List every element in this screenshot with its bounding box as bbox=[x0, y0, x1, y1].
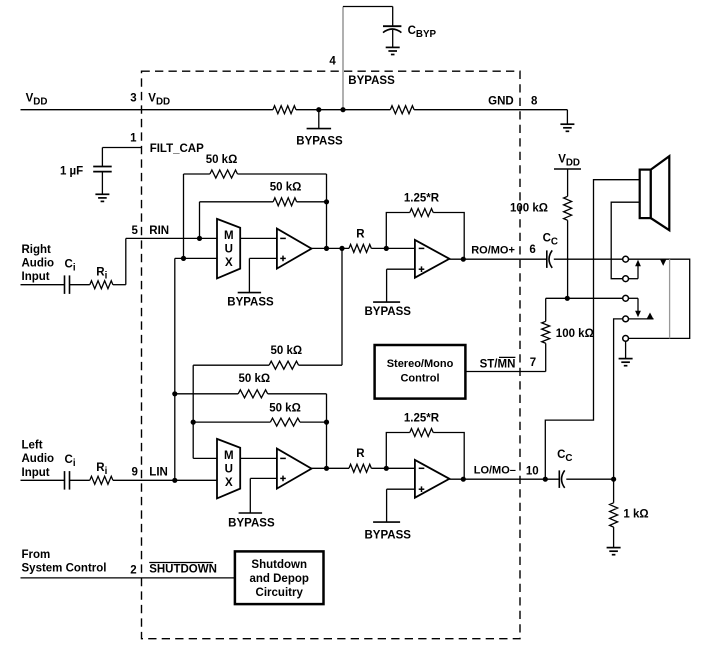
wire mono resistor left drop bbox=[192, 365, 194, 458]
wire VDD rail bbox=[21, 109, 273, 111]
svg-text:1.25*R: 1.25*R bbox=[404, 413, 440, 425]
wire jack contact 4 to output bbox=[614, 319, 623, 479]
ground (CBYP) bbox=[386, 46, 400, 48]
resistor 1.25R (top) bbox=[410, 209, 433, 217]
resistor internal (VDD rail left) bbox=[273, 106, 296, 114]
resistor Ri (right) bbox=[90, 281, 113, 289]
resistor 1.25R (bottom) bbox=[410, 429, 433, 437]
jack contact 5 (sleeve) bbox=[623, 336, 629, 342]
capacitor Ci (left) bbox=[64, 471, 66, 490]
svg-text:Circuitry: Circuitry bbox=[256, 587, 304, 599]
op-amp A4 bbox=[415, 460, 450, 498]
svg-text:BYPASS: BYPASS bbox=[364, 529, 411, 541]
wire 1k bottom bbox=[613, 527, 615, 547]
jack contact 4 bbox=[623, 316, 629, 322]
node A4 feedback in bbox=[384, 466, 389, 471]
resistor 50k B bbox=[238, 390, 267, 398]
svg-text:M: M bbox=[224, 450, 234, 462]
svg-text:50 kΩ: 50 kΩ bbox=[270, 182, 302, 194]
svg-text:Stereo/Mono: Stereo/Mono bbox=[387, 358, 454, 370]
wire 50k B rail bbox=[175, 393, 238, 395]
svg-text:9: 9 bbox=[131, 467, 137, 479]
svg-text:1.25*R: 1.25*R bbox=[404, 193, 440, 205]
wire A3 output bbox=[312, 467, 350, 469]
svg-text:X: X bbox=[225, 257, 233, 269]
svg-text:4: 4 bbox=[329, 56, 336, 68]
wire speaker terminal 2 bbox=[611, 202, 640, 279]
block Shutdown and Depop Circuitry bbox=[235, 551, 324, 604]
wire A4 feedback bbox=[386, 433, 410, 469]
IC package boundary (dashed) bbox=[142, 71, 521, 639]
node feedback to output (bottom) bbox=[324, 466, 329, 471]
wire A1 output bbox=[312, 247, 350, 249]
jack contact 2 bbox=[623, 276, 629, 282]
svg-text:M: M bbox=[224, 230, 234, 242]
node 1k junction bbox=[611, 477, 616, 482]
svg-text:Input: Input bbox=[22, 271, 50, 283]
wire sense to jack ring bbox=[567, 297, 622, 299]
block Stereo/Mono Control bbox=[375, 345, 466, 399]
resistor R (bottom) bbox=[349, 464, 371, 472]
node 50kC left join bbox=[191, 420, 196, 425]
svg-text:X: X bbox=[225, 477, 233, 489]
wire pin 4 to bypass cap (gray) bbox=[342, 7, 344, 110]
svg-text:2: 2 bbox=[130, 564, 136, 576]
svg-text:and Depop: and Depop bbox=[249, 573, 308, 585]
svg-text:5: 5 bbox=[131, 225, 138, 237]
ground (VDD rail right) bbox=[566, 110, 568, 125]
svg-text:Shutdown: Shutdown bbox=[251, 559, 307, 571]
svg-text:50 kΩ: 50 kΩ bbox=[269, 402, 301, 414]
wire R2 left drop bbox=[199, 202, 201, 239]
mux U1b bbox=[217, 439, 240, 499]
svg-text:3: 3 bbox=[130, 93, 136, 105]
svg-text:SHUTDOWN: SHUTDOWN bbox=[149, 564, 217, 576]
node mono link at 50k B bbox=[172, 391, 177, 396]
node A4 out bbox=[461, 477, 466, 482]
resistor 50k A bbox=[269, 361, 298, 369]
wire CC out (bottom) bbox=[566, 478, 613, 480]
speaker bbox=[640, 170, 651, 219]
bypass tap symbol bbox=[318, 110, 320, 129]
node mono tap (top) bbox=[339, 246, 344, 251]
svg-text:BYPASS: BYPASS bbox=[348, 75, 395, 87]
node mono link at LIN bbox=[172, 478, 177, 483]
wire right input riser bbox=[125, 238, 127, 284]
wire 100k to ST/MN bbox=[545, 343, 547, 371]
node 50kC right join bbox=[324, 420, 329, 425]
wire A3 + input to bypass bbox=[250, 477, 277, 479]
ground (jack) bbox=[619, 358, 633, 360]
jack switch arrow up bbox=[629, 278, 639, 280]
svg-text:50 kΩ: 50 kΩ bbox=[270, 345, 302, 357]
svg-text:BYPASS: BYPASS bbox=[227, 297, 274, 309]
svg-text:100 kΩ: 100 kΩ bbox=[510, 203, 548, 215]
svg-text:8: 8 bbox=[531, 95, 538, 107]
wire left input bbox=[21, 479, 65, 481]
wire 50k R2 rail bbox=[200, 201, 274, 203]
wire A4 out LO/MO- bbox=[449, 478, 559, 480]
svg-text:50 kΩ: 50 kΩ bbox=[238, 373, 270, 385]
resistor 100k (upper) bbox=[564, 196, 572, 220]
wire 50k R1 rail bbox=[184, 173, 210, 175]
capacitor CC (bottom) bbox=[558, 470, 560, 488]
svg-text:LO/MO–: LO/MO– bbox=[474, 465, 516, 477]
svg-text:Audio: Audio bbox=[22, 453, 55, 465]
svg-text:From: From bbox=[22, 549, 51, 561]
wire mux1 input2 bbox=[175, 257, 217, 259]
wire R to A4 minus bbox=[371, 467, 415, 469]
svg-text:Left: Left bbox=[22, 440, 43, 452]
svg-text:7: 7 bbox=[530, 357, 536, 369]
mux U1a bbox=[217, 219, 240, 279]
wire jack tip to body bbox=[629, 259, 690, 338]
op-amp A3 bbox=[277, 449, 312, 489]
capacitor CC (top) bbox=[546, 250, 548, 268]
wire A1 + input to bypass bbox=[249, 257, 277, 259]
wire A2 feedback bbox=[386, 213, 410, 249]
wire A2 out RO/MO+ bbox=[449, 258, 546, 260]
svg-text:1 µF: 1 µF bbox=[60, 166, 83, 178]
resistor 1k bbox=[610, 503, 618, 527]
jack contact 3 (ring) bbox=[623, 295, 629, 301]
svg-text:Right: Right bbox=[22, 244, 52, 256]
svg-text:100 kΩ: 100 kΩ bbox=[556, 328, 594, 340]
svg-text:BYPASS: BYPASS bbox=[296, 136, 343, 148]
node BYPASS tap on VDD rail bbox=[316, 107, 321, 112]
svg-text:BYPASS: BYPASS bbox=[364, 306, 411, 318]
wire mux1 out to opamp bbox=[240, 237, 277, 239]
wire feedback right vertical (bottom) bbox=[326, 394, 328, 469]
wire mux2 out to opamp bbox=[240, 457, 277, 459]
wire shutdown bbox=[21, 577, 235, 579]
ground (1uF) bbox=[95, 193, 109, 195]
svg-text:1 kΩ: 1 kΩ bbox=[623, 509, 648, 521]
wire jack sleeve ground bbox=[625, 341, 627, 358]
svg-text:ST/MN: ST/MN bbox=[480, 359, 516, 371]
op-amp A1 bbox=[277, 229, 312, 269]
wire sense to 100k lower bbox=[546, 297, 568, 299]
wire A4 + to bypass bbox=[387, 488, 415, 490]
wire 1k top bbox=[613, 479, 615, 503]
node R2 join bbox=[324, 199, 329, 204]
capacitor Ci (right) bbox=[64, 275, 66, 294]
svg-text:RIN: RIN bbox=[149, 225, 169, 237]
svg-text:1: 1 bbox=[130, 132, 137, 144]
power VDD bar bbox=[554, 168, 581, 170]
svg-text:Control: Control bbox=[400, 373, 439, 385]
capacitor 1uF bbox=[101, 148, 103, 167]
svg-text:R: R bbox=[356, 448, 365, 460]
svg-text:U: U bbox=[225, 463, 233, 475]
resistor 50k R2 bbox=[273, 198, 296, 206]
wire R to A2 minus bbox=[371, 247, 415, 249]
wire CC to jack tip bbox=[554, 258, 623, 260]
node feedback to output (top) bbox=[324, 246, 329, 251]
wire A2 + to bypass bbox=[387, 268, 415, 270]
wire speaker terminal 1 bbox=[545, 180, 639, 480]
wire mono resistor rail bbox=[341, 248, 343, 365]
wire 100k to sense node bbox=[567, 220, 569, 298]
node sense bbox=[565, 296, 570, 301]
svg-text:BYPASS: BYPASS bbox=[228, 517, 275, 529]
svg-text:50 kΩ: 50 kΩ bbox=[206, 154, 238, 166]
wire VDD to 100k bbox=[567, 169, 569, 196]
resistor R (top) bbox=[349, 244, 371, 252]
node pin4 junction on VDD rail bbox=[340, 107, 345, 112]
wire 50k C rail bbox=[193, 421, 270, 423]
svg-text:GND: GND bbox=[488, 95, 514, 107]
node R2 to RIN bbox=[197, 236, 202, 241]
wire feedback right vertical (top) bbox=[326, 174, 328, 248]
svg-text:RO/MO+: RO/MO+ bbox=[471, 244, 515, 256]
node speaker feed join bbox=[543, 477, 548, 482]
svg-text:FILT_CAP: FILT_CAP bbox=[150, 143, 204, 155]
wire right input bbox=[21, 284, 65, 286]
wire jack contact 4 stub bbox=[629, 318, 654, 320]
wire pin 1 FILT_CAP bbox=[102, 147, 141, 149]
jack switch arrow down bbox=[629, 297, 639, 299]
resistor internal (VDD rail right) bbox=[390, 106, 414, 114]
op-amp A2 bbox=[415, 240, 450, 278]
jack mark triangle up bbox=[647, 313, 654, 319]
resistor 50k C bbox=[270, 418, 299, 426]
svg-text:LIN: LIN bbox=[149, 467, 168, 479]
node A2 out bbox=[461, 257, 466, 262]
resistor Ri (left) bbox=[90, 476, 113, 484]
wire R1 left drop bbox=[183, 174, 185, 258]
jack contact 1 (tip) bbox=[623, 256, 629, 262]
svg-text:System Control: System Control bbox=[22, 563, 107, 575]
node A2 feedback in bbox=[384, 246, 389, 251]
ground (1k) bbox=[607, 547, 621, 549]
svg-text:10: 10 bbox=[526, 466, 539, 478]
jack mark triangle down bbox=[660, 259, 666, 266]
resistor 100k (lower) bbox=[542, 321, 550, 343]
node R1 to mux input2 bbox=[181, 256, 186, 261]
svg-text:Input: Input bbox=[22, 467, 50, 479]
wire bypass cap top bbox=[343, 6, 393, 8]
wire mono link vertical (left) bbox=[174, 258, 176, 480]
jack body (gray edge) bbox=[669, 259, 671, 338]
svg-text:6: 6 bbox=[529, 244, 535, 256]
svg-text:R: R bbox=[356, 228, 365, 240]
capacitor CBYP bbox=[392, 7, 394, 27]
svg-text:U: U bbox=[225, 243, 233, 255]
resistor 50k R1 bbox=[210, 170, 238, 178]
svg-text:Audio: Audio bbox=[22, 258, 55, 270]
